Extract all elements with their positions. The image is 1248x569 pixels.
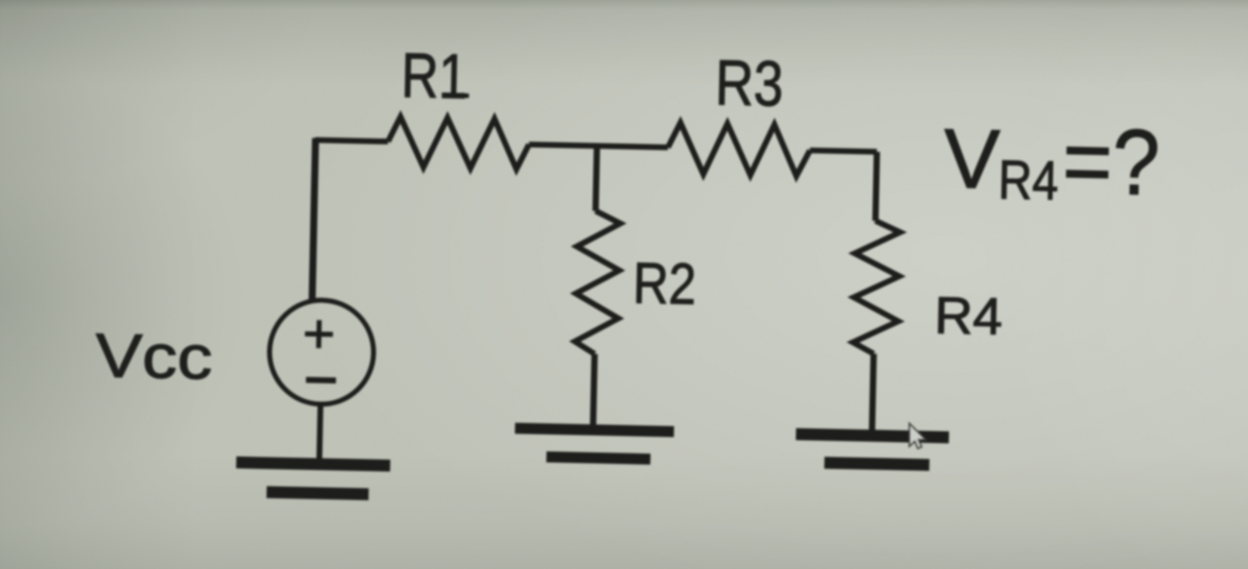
voltage source Vcc circle [268,299,374,405]
resistor R1 [387,117,529,170]
wire from R1 through node to R3 [529,144,668,147]
wire left vertical from top rail to Vcc source [312,138,315,301]
mouse cursor [909,423,926,448]
photo grain [0,0,1,1]
wire right vertical from top rail to R4 [875,152,876,221]
resistor R4 zigzag [853,220,901,354]
plus sign inside source [305,320,334,349]
resistor R2 zigzag [575,211,621,355]
wire from source bottom to ground [319,404,320,460]
wire from top-left corner to R1 [315,140,388,142]
wire from R3 to R4 corner [810,150,877,151]
wire from R2 to ground [593,354,595,426]
ground under R2 [515,428,674,431]
ground under R4 [796,434,949,437]
foot of digit 1 in R1 [445,93,469,98]
minus sign inside source [306,377,336,384]
ground under Vcc [236,462,390,465]
resistor R3 [667,122,810,176]
wire from R4 to ground [872,354,874,432]
node wire down to R2 [596,146,597,211]
